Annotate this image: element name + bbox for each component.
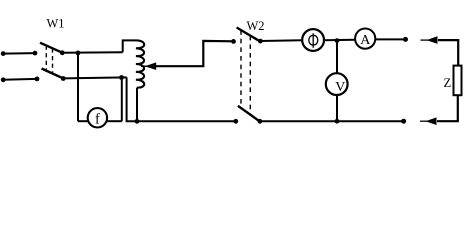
switch W2 pole1 blade	[237, 28, 259, 41]
impedance Z rectangle	[454, 66, 462, 96]
wire output top to Z	[438, 40, 458, 66]
wire f-meter right lead vertical	[121, 78, 123, 122]
wire top measurement rail W2 to phi	[260, 39, 302, 42]
switch W2 pole2 right terminal dot	[258, 119, 263, 124]
switch W2 pole2 blade	[238, 106, 259, 121]
svg-text:Z: Z	[444, 76, 452, 90]
wire coil bottom lead	[136, 88, 138, 122]
switch W1 linkage dashed line 2	[52, 48, 54, 74]
wire bottom supply rail left	[3, 78, 37, 81]
switch W1 pole2 right terminal dot	[61, 76, 66, 81]
wire top supply rail right	[62, 51, 122, 54]
svg-text:W2: W2	[247, 19, 265, 33]
wire f-meter left lead vertical	[77, 53, 79, 121]
svg-text:f: f	[95, 111, 100, 127]
svg-text:A: A	[360, 33, 371, 48]
svg-text:W1: W1	[47, 17, 65, 31]
node junction dot bottom rail	[119, 75, 124, 80]
node bottom rail end dot	[401, 119, 406, 124]
switch W1 pole2 left terminal dot	[35, 77, 40, 82]
wire top rail corner to coil	[123, 40, 137, 52]
wire top supply rail left	[3, 52, 35, 55]
output arrow top head	[427, 36, 438, 44]
switch W1 pole2 blade	[42, 69, 64, 79]
wire bottom measurement rail left	[137, 120, 236, 122]
meter f circle	[88, 108, 107, 127]
switch W1 linkage dashed line 1	[45, 46, 47, 72]
output arrow top tip line	[421, 39, 429, 41]
label phi stem	[312, 33, 314, 48]
wire wiper tail	[155, 41, 234, 66]
switch W2 pole2 left terminal dot	[233, 119, 238, 124]
wire bottom rail corner down	[127, 77, 137, 121]
output arrow bottom tip line	[420, 120, 427, 122]
wire V branch lower	[336, 95, 338, 121]
meter V circle	[326, 73, 348, 95]
switch W2 pole1 left terminal dot	[231, 39, 236, 44]
wire f-meter left lead horizontal	[78, 120, 89, 122]
switch W1 pole1 left terminal dot	[33, 51, 38, 56]
svg-text:V: V	[335, 80, 345, 95]
wire V branch upper	[336, 41, 338, 74]
wire f-meter right lead horizontal	[106, 120, 121, 122]
wiper arrow head	[145, 62, 157, 70]
node L2 input terminal dot	[1, 77, 6, 82]
switch W2 pole1 right terminal dot	[258, 39, 263, 44]
switch W2 linkage dashed line 1	[240, 30, 242, 108]
wire output bottom to Z	[437, 95, 458, 121]
switch W1 pole1 blade	[40, 43, 62, 53]
node junction dot V bottom	[335, 119, 340, 124]
inductor T1 autotransformer coil	[136, 40, 144, 87]
node junction dot f-meter tap	[76, 51, 81, 56]
wire A to right end	[375, 38, 405, 40]
node L1 input terminal dot	[1, 51, 6, 56]
node junction dot V top	[335, 38, 340, 43]
node top rail end dot	[403, 37, 408, 42]
output arrow bottom head	[426, 117, 437, 125]
switch W1 pole1 right terminal dot	[60, 50, 65, 55]
wire phi to junction	[324, 39, 355, 42]
wiper arrow tip thin line	[141, 65, 147, 67]
switch W2 linkage dashed line 2	[249, 36, 251, 115]
wire bottom measurement rail	[260, 120, 404, 122]
meter phi circle	[302, 29, 324, 51]
meter A circle	[355, 28, 375, 48]
wire bottom supply rail right	[63, 77, 126, 78]
label phi ellipse	[309, 35, 318, 45]
node junction dot coil bottom	[135, 119, 140, 124]
